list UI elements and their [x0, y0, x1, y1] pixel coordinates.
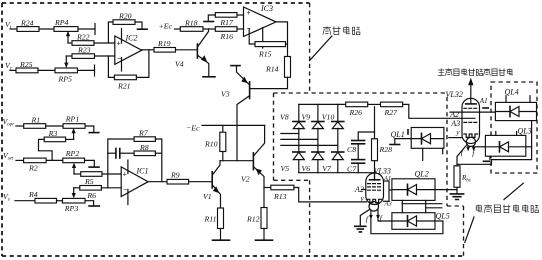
leader line regulator supply right — [504, 183, 523, 199]
VL33 pin A3 — [384, 200, 390, 202]
resistor R11 — [218, 208, 224, 229]
wire VL32 filament to QL3 — [475, 146, 485, 148]
wire RP1 right to terminal — [85, 126, 94, 132]
polarity minus QL3 — [484, 160, 490, 162]
svg-text:−: − — [123, 187, 127, 194]
svg-text:V3: V3 — [221, 89, 230, 98]
svg-text:V1: V1 — [203, 192, 212, 201]
wire R27 right to VL32 grid — [403, 104, 475, 118]
wire R18 to R16 — [203, 28, 215, 30]
diode V9 — [312, 121, 324, 123]
diode V6 — [312, 151, 324, 153]
VL32 cathode cage — [464, 134, 478, 137]
wire Vz to R25 — [10, 69, 16, 71]
resistor R23 — [72, 54, 95, 59]
RP5 wiper arrow from R23 — [65, 56, 67, 66]
svg-text:QL5: QL5 — [436, 211, 450, 220]
svg-text:IC3: IC3 — [260, 4, 273, 13]
wire QL5 right wrap to filament — [371, 219, 443, 233]
svg-text:RP5: RP5 — [58, 75, 73, 84]
svg-text:V6: V6 — [302, 164, 311, 173]
VL32 pin A2 line to QL4 — [450, 111, 495, 113]
resistor R2 — [24, 158, 46, 163]
wire Rbs bottom to ground — [456, 187, 458, 193]
svg-text:QL2: QL2 — [415, 169, 429, 178]
resistor R21 — [114, 75, 136, 80]
svg-text:IC1: IC1 — [136, 166, 149, 175]
polarity minus QL4 — [483, 107, 488, 109]
tube VL33 envelope — [366, 173, 384, 205]
VL33 pin A1 — [384, 180, 390, 182]
supply box dashed jog — [447, 205, 464, 207]
supply box dashed notch bottom — [274, 179, 310, 181]
wire Vt to R24 — [10, 28, 17, 30]
wire R16 to IC3 minus — [237, 28, 244, 30]
resistor R16 — [215, 27, 237, 32]
wire R28 bottom to VL33 anode — [374, 161, 376, 180]
rectifier QL3 — [485, 135, 525, 156]
svg-text:A1: A1 — [383, 175, 391, 182]
svg-text:RP3: RP3 — [64, 204, 79, 213]
IC3 power stub bottom — [262, 28, 264, 49]
VL32 anode arrow to common cathode terminal — [470, 85, 472, 104]
wire +Ec to R18 — [175, 28, 181, 30]
VL33 anode plate — [370, 179, 380, 181]
wire bridge column 2 — [317, 104, 319, 172]
svg-text:R1: R1 — [31, 116, 41, 125]
RP2 wiper arrow — [73, 165, 75, 174]
svg-text:R15: R15 — [258, 49, 272, 58]
wire phase 3 — [281, 144, 338, 146]
svg-text:+: + — [247, 10, 251, 17]
VL33 pin A2 — [362, 189, 366, 191]
wire feedback left rail — [108, 139, 134, 188]
IC1 power stub top — [127, 160, 129, 173]
wire R26 to R27 — [368, 103, 381, 105]
wire QL2 to QL5 stubs — [402, 200, 425, 212]
svg-text:R5: R5 — [84, 177, 94, 186]
supply box dashed notch left — [273, 93, 275, 180]
control circuit dashed border right lower — [309, 180, 311, 256]
svg-text:R9: R9 — [170, 170, 180, 179]
resistor R14 — [285, 57, 291, 78]
svg-text:V5: V5 — [281, 164, 290, 173]
control circuit dashed border right upper — [309, 3, 311, 93]
wire R21 right to output — [136, 50, 149, 78]
IC2 power stub bottom — [121, 58, 123, 72]
VL33 cathode circle — [369, 202, 379, 212]
op-amp IC2 — [115, 36, 142, 64]
wire R9 to V1 base — [189, 181, 212, 183]
resistor R18 — [180, 27, 203, 32]
resistor R17 — [215, 13, 237, 18]
svg-text:R7: R7 — [138, 129, 149, 138]
terminal bar RP3 — [89, 205, 99, 207]
capacitor C8 — [352, 140, 365, 142]
wire RP4 right to end bar — [78, 28, 95, 30]
resistor R9 — [167, 179, 189, 184]
resistor R20 — [113, 20, 135, 25]
wire R6 left — [74, 187, 80, 189]
diode V7 — [332, 151, 344, 153]
wire bridge column 1 — [298, 104, 300, 172]
wire R13 right to VL33 cathode — [294, 188, 367, 202]
wire R25 to RP5 — [38, 69, 55, 71]
transistor V2 — [252, 153, 254, 170]
terminal bar R20 — [138, 28, 148, 30]
svg-text:A1: A1 — [479, 97, 488, 105]
wire filament lines right — [402, 204, 442, 208]
svg-text:QL3: QL3 — [518, 126, 532, 135]
wire bridge column 3 — [337, 104, 339, 172]
wire A1-A3 bracket to QL2 — [389, 181, 392, 201]
wire R22 to IC2 plus — [94, 42, 115, 44]
svg-text:QL4: QL4 — [505, 87, 519, 96]
svg-text:+: + — [117, 41, 121, 48]
wire R20 left to plus input rail — [108, 22, 113, 43]
svg-text:C7: C7 — [347, 165, 357, 174]
wire QL4 top stubs — [506, 96, 530, 103]
wire R11 to ground bar — [220, 229, 222, 240]
svg-text:R12: R12 — [246, 215, 260, 224]
svg-text:R19: R19 — [157, 39, 171, 48]
svg-text:R14: R14 — [265, 64, 279, 73]
svg-text:A3: A3 — [384, 201, 393, 208]
wire IC3 output down — [276, 22, 288, 57]
RP3 wiper arrow from R6 — [73, 188, 75, 196]
svg-text:V10: V10 — [322, 113, 335, 122]
resistor R1 — [24, 124, 46, 129]
svg-text:R11: R11 — [204, 215, 217, 224]
resistor R24 — [17, 27, 39, 32]
diode V10 — [332, 121, 344, 123]
label kongzhi dianlu (control circuit) — [323, 26, 360, 35]
resistor R7 — [134, 137, 155, 142]
svg-text:R13: R13 — [273, 192, 287, 201]
svg-text:R28: R28 — [379, 145, 393, 154]
polarity mark QL1 — [407, 130, 409, 134]
svg-text:RP1: RP1 — [65, 115, 80, 124]
transistor V3 — [249, 82, 251, 99]
wire R23 to IC2 minus — [95, 55, 115, 57]
wire bridge bottom rail — [299, 172, 375, 174]
wire QL3 bottom stub — [489, 156, 491, 159]
resistor R22 — [72, 41, 94, 46]
VL32 anode plate — [466, 103, 476, 105]
svg-text:R23: R23 — [77, 46, 91, 55]
terminal bar QL1 — [390, 144, 400, 146]
svg-text:A2: A2 — [449, 110, 459, 119]
IC1 power stub bottom — [127, 190, 129, 205]
svg-text:V9: V9 — [302, 113, 311, 122]
terminal bar V4 emitter — [203, 76, 215, 78]
wire C7 to bottom rail — [357, 163, 359, 173]
supply box dashed top edge — [274, 92, 447, 94]
ground VL33 cathode — [360, 210, 369, 226]
supply box dashed right edge upper — [446, 97, 448, 206]
potentiometer RP1 — [63, 124, 85, 129]
svg-text:R2: R2 — [28, 164, 38, 173]
VL32 pin y lead — [449, 137, 462, 139]
svg-text:VL32: VL32 — [446, 90, 463, 99]
label regulator tube supply circuit — [476, 205, 538, 214]
svg-text:y: y — [360, 193, 365, 202]
svg-text:R24: R24 — [20, 18, 34, 27]
control circuit dashed border bottom — [2, 255, 464, 257]
wire IC2 output to R19 — [142, 49, 154, 51]
wire R19 to V4 base — [176, 49, 197, 51]
terminal bar R11 — [213, 239, 230, 241]
wire QL1 left to terminal — [395, 139, 411, 144]
resistor R15 — [255, 42, 286, 47]
wire R23 left — [66, 55, 72, 57]
VL33 grids dashed — [368, 184, 382, 191]
terminal bar RP5 — [94, 65, 96, 76]
wire QL4 output wrap to Rbs node — [457, 121, 532, 165]
tube VL32 envelope — [462, 98, 480, 143]
VL32 filament leads f f — [468, 146, 474, 149]
svg-text:−: − — [117, 55, 121, 62]
svg-text:R3: R3 — [48, 129, 58, 138]
svg-text:R22: R22 — [76, 32, 90, 41]
svg-text:V7: V7 — [322, 164, 332, 173]
svg-text:C8: C8 — [347, 145, 356, 154]
op-amp IC1 — [121, 167, 148, 197]
terminal bar RP2 — [89, 166, 99, 168]
resistor R6 — [80, 186, 102, 191]
regulator supply dashed box — [491, 82, 537, 173]
resistor R28 — [372, 139, 378, 161]
wire R28 top riser — [374, 107, 376, 139]
RP4 wiper arrow — [67, 33, 69, 43]
svg-text:R10: R10 — [204, 140, 218, 149]
wire phase 2 — [281, 138, 318, 140]
control circuit dashed border top — [2, 2, 310, 4]
wire R12 to ground bar — [263, 229, 265, 240]
svg-text:R18: R18 — [184, 19, 198, 28]
svg-text:−: − — [247, 26, 251, 33]
wire feedback right rail — [155, 139, 161, 182]
IC2 power stub top — [121, 29, 123, 44]
label main HV common cathode terminal — [438, 69, 513, 76]
svg-text:R17: R17 — [219, 18, 234, 27]
terminal bar RP1 — [89, 132, 99, 134]
RP1 wiper arrow — [73, 131, 75, 140]
capacitor C7 — [352, 159, 365, 161]
resistor R4 — [35, 198, 57, 203]
wire QL3 right lead — [526, 146, 532, 148]
capacitor C feedback — [108, 152, 116, 154]
wire wiper to R5 — [74, 173, 81, 175]
wire V2 emitter to R13 — [264, 187, 271, 189]
wire -Ec rail — [202, 124, 265, 126]
wire R21 left rail from minus input — [108, 56, 114, 77]
wire QL1 bottom stubs — [423, 148, 443, 160]
VL33 filament leads f f — [371, 210, 378, 218]
rectifier QL5 — [392, 213, 435, 230]
potentiometer RP5 — [55, 68, 78, 73]
svg-text:R8: R8 — [139, 143, 149, 152]
svg-text:RP2: RP2 — [65, 149, 80, 158]
terminal bar R12 — [256, 239, 273, 241]
wire R24 to RP4 — [39, 28, 54, 30]
wire R15 right to output rail — [286, 43, 288, 45]
svg-text:RP4: RP4 — [54, 18, 69, 27]
VL32 grids dashed — [464, 108, 478, 122]
wire R20 right to terminal — [135, 22, 142, 29]
transistor V1 — [211, 172, 213, 188]
terminal bar RP4 — [94, 24, 96, 35]
wire QL3 top stubs — [496, 132, 517, 136]
potentiometer RP4 — [54, 27, 78, 32]
diode V5 — [293, 151, 305, 153]
potentiometer RP3 — [63, 198, 86, 203]
svg-text:−Ec: −Ec — [186, 123, 200, 132]
svg-text:+: + — [123, 172, 127, 179]
svg-text:R27: R27 — [384, 108, 399, 117]
svg-text:R4: R4 — [28, 190, 38, 199]
resistor R25 — [16, 68, 38, 73]
svg-text:R6: R6 — [86, 191, 96, 200]
ground Rbs — [450, 194, 463, 200]
terminal bar V3 emitter — [231, 65, 240, 67]
wire Vs to R4 — [15, 200, 35, 202]
wire QL5 left to filament — [378, 219, 392, 221]
wire R10 top lead — [222, 125, 224, 132]
resistor R19 — [154, 48, 176, 53]
svg-text:IC2: IC2 — [125, 34, 138, 43]
VL32 cathode circle — [466, 137, 475, 146]
svg-text:R26: R26 — [349, 108, 363, 117]
resistor Rbs — [454, 166, 460, 188]
rectifier QL1 — [411, 128, 444, 149]
svg-text:y: y — [455, 128, 460, 137]
resistor R8 — [134, 151, 155, 156]
resistor R5 — [81, 172, 102, 177]
wire R17 left to terminal — [208, 15, 215, 21]
svg-text:QL1: QL1 — [391, 130, 405, 139]
wire wiper to R22 — [68, 42, 72, 44]
wire RP2 right to terminal — [85, 160, 95, 166]
transistor V4 — [196, 44, 198, 58]
wire R2 to RP2 — [46, 159, 63, 161]
rectifier QL4 — [495, 102, 536, 120]
svg-text:R25: R25 — [19, 60, 33, 69]
resistor R10 — [220, 132, 226, 151]
wire QL2 right to ground node — [435, 189, 457, 191]
leader line control circuit — [310, 36, 332, 60]
resistor R13 — [271, 185, 294, 190]
supply box dashed right edge lower — [463, 206, 465, 256]
VL33 cathode cage — [368, 199, 382, 202]
op-amp IC3 — [244, 7, 277, 37]
rectifier QL2 — [392, 179, 435, 201]
wire V1 collector node to V2 base — [220, 160, 253, 162]
svg-text:R16: R16 — [220, 32, 234, 41]
resistor R26 — [346, 102, 368, 107]
svg-text:+Ec: +Ec — [159, 21, 173, 30]
wire R14 bottom to V3 base — [251, 77, 288, 88]
wire RP3 right to terminal — [85, 201, 94, 206]
wire R15 left to minus input — [249, 29, 255, 44]
wire R8 right — [155, 152, 161, 154]
wire VL32 cathode to Rbs — [457, 144, 467, 166]
diode V8 — [293, 121, 305, 123]
wire R3 left stepped down to R2 junction — [39, 139, 53, 160]
wire wiper to R3 — [66, 138, 74, 140]
wire R1 to RP1 — [46, 125, 63, 127]
svg-text:V8: V8 — [280, 113, 289, 122]
svg-text:V4: V4 — [175, 60, 184, 69]
wire C8 top jog — [358, 132, 374, 140]
wire Vopr to R1 — [16, 125, 24, 127]
wire R6 to IC1 minus — [101, 187, 121, 189]
resistor R12 — [261, 208, 267, 229]
resistor R3 — [44, 137, 65, 142]
svg-text:V2: V2 — [241, 174, 250, 183]
wire C8 to C7 — [357, 144, 359, 160]
potentiometer RP2 — [63, 158, 85, 163]
svg-text:R21: R21 — [117, 82, 131, 91]
leader line regulator supply left — [465, 217, 474, 243]
wire bridge top rail — [299, 103, 346, 105]
wire R4 to RP3 — [57, 200, 63, 202]
resistor R27 — [381, 102, 403, 107]
svg-text:R20: R20 — [118, 11, 132, 20]
terminal bar R17 — [204, 21, 214, 23]
wire RP5 right to end bar — [78, 69, 95, 71]
wire IC1 output to R9 — [148, 181, 167, 183]
wire R17 to IC3 plus — [237, 14, 244, 16]
wire phase 1 — [281, 133, 299, 135]
wire Vset to R2 — [16, 159, 24, 161]
control circuit dashed border left — [1, 3, 3, 256]
wire R10 bottom to node — [222, 152, 224, 161]
wire R5 to IC1 plus — [102, 173, 121, 175]
